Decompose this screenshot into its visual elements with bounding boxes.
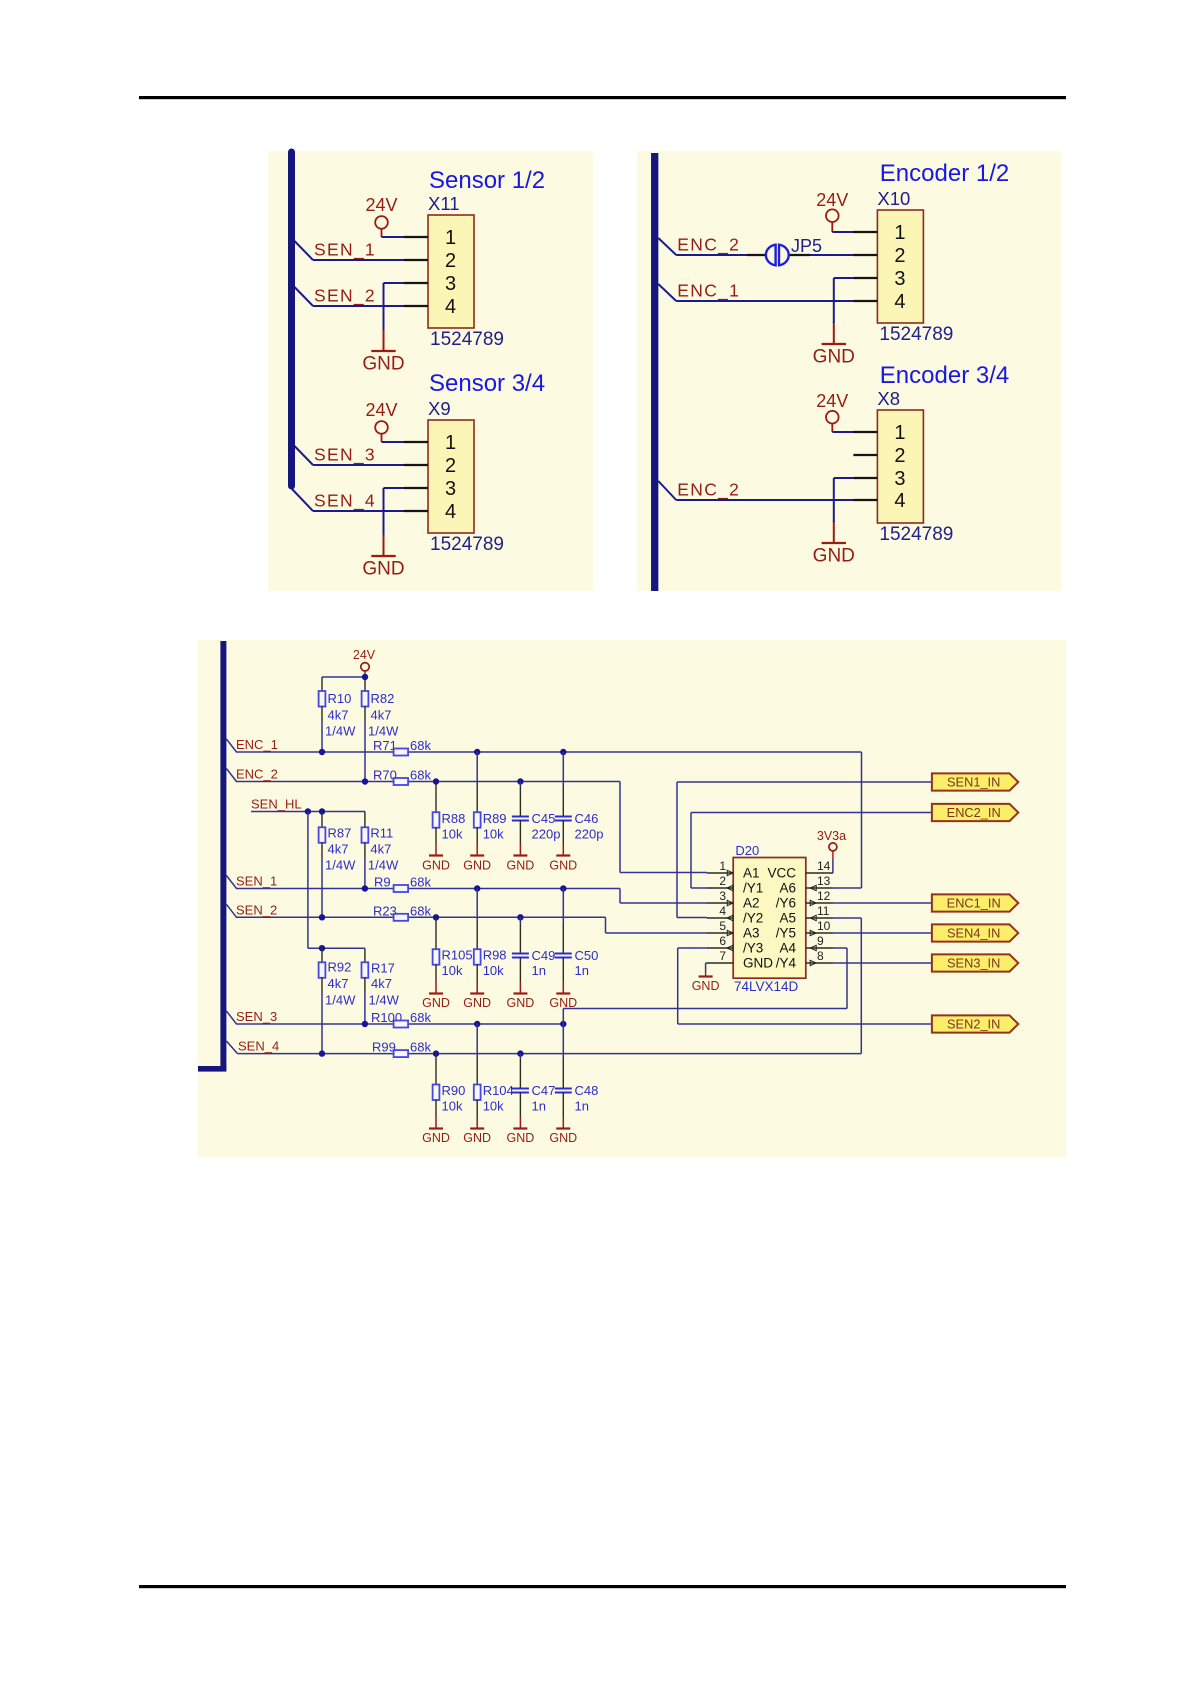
- svg-text:ENC1_IN: ENC1_IN: [947, 896, 1001, 911]
- svg-text:1/4W: 1/4W: [325, 993, 356, 1008]
- svg-text:1/4W: 1/4W: [368, 858, 399, 873]
- svg-text:ENC_2: ENC_2: [236, 767, 278, 782]
- svg-text:10k: 10k: [442, 827, 463, 842]
- svg-text:Encoder 3/4: Encoder 3/4: [880, 362, 1009, 389]
- svg-text:R105: R105: [442, 948, 473, 963]
- svg-text:SEN1_IN: SEN1_IN: [947, 775, 1000, 790]
- svg-text:GND: GND: [692, 979, 720, 993]
- svg-text:R104: R104: [483, 1083, 514, 1098]
- svg-text:1: 1: [894, 422, 905, 444]
- svg-text:SEN3_IN: SEN3_IN: [947, 956, 1000, 971]
- svg-text:R98: R98: [483, 948, 507, 963]
- svg-text:ENC_2: ENC_2: [677, 480, 740, 501]
- svg-text:24V: 24V: [353, 648, 376, 662]
- svg-text:SEN_4: SEN_4: [238, 1039, 279, 1054]
- svg-text:A5: A5: [779, 911, 796, 926]
- svg-text:220p: 220p: [575, 827, 604, 842]
- svg-text:3: 3: [719, 889, 726, 903]
- svg-text:4: 4: [445, 501, 456, 523]
- svg-text:/Y2: /Y2: [743, 911, 763, 926]
- svg-text:1: 1: [894, 222, 905, 244]
- svg-text:1524789: 1524789: [879, 524, 953, 545]
- svg-text:68k: 68k: [410, 875, 431, 890]
- svg-text:74LVX14D: 74LVX14D: [734, 979, 799, 994]
- svg-text:1524789: 1524789: [879, 324, 953, 345]
- svg-text:R89: R89: [483, 811, 507, 826]
- svg-text:R11: R11: [370, 826, 393, 841]
- svg-text:68k: 68k: [410, 1040, 431, 1055]
- svg-text:GND: GND: [463, 1131, 491, 1145]
- svg-text:D20: D20: [735, 843, 759, 858]
- svg-text:220p: 220p: [532, 827, 561, 842]
- svg-text:A6: A6: [779, 881, 796, 896]
- svg-text:Sensor 3/4: Sensor 3/4: [429, 370, 545, 397]
- svg-text:1n: 1n: [532, 963, 546, 978]
- svg-text:ENC_2: ENC_2: [677, 235, 740, 256]
- svg-text:R99: R99: [372, 1040, 396, 1055]
- svg-text:3: 3: [894, 268, 905, 290]
- svg-text:/Y6: /Y6: [776, 896, 796, 911]
- svg-text:GND: GND: [813, 347, 855, 368]
- svg-text:SEN_3: SEN_3: [236, 1009, 277, 1024]
- svg-text:A4: A4: [779, 941, 796, 956]
- svg-text:6: 6: [719, 934, 726, 948]
- svg-text:24V: 24V: [365, 400, 397, 420]
- svg-text:R87: R87: [328, 826, 352, 841]
- svg-text:ENC2_IN: ENC2_IN: [947, 805, 1001, 820]
- svg-text:4k7: 4k7: [328, 708, 349, 723]
- svg-text:4: 4: [894, 291, 905, 313]
- svg-text:1/4W: 1/4W: [325, 724, 356, 739]
- svg-text:ENC_1: ENC_1: [677, 281, 740, 302]
- svg-text:24V: 24V: [816, 391, 848, 411]
- svg-text:1524789: 1524789: [430, 534, 504, 555]
- svg-text:10: 10: [817, 919, 831, 933]
- svg-text:4k7: 4k7: [328, 976, 349, 991]
- svg-text:X8: X8: [877, 388, 900, 409]
- svg-text:1/4W: 1/4W: [368, 724, 399, 739]
- svg-text:GND: GND: [422, 1131, 450, 1145]
- svg-text:SEN_1: SEN_1: [314, 240, 376, 261]
- svg-text:13: 13: [817, 874, 831, 888]
- svg-text:GND: GND: [463, 996, 491, 1010]
- svg-text:14: 14: [817, 859, 831, 873]
- svg-text:12: 12: [817, 889, 831, 903]
- svg-text:68k: 68k: [410, 768, 431, 783]
- svg-text:2: 2: [445, 250, 456, 272]
- svg-text:/Y4: /Y4: [776, 956, 797, 971]
- svg-text:X10: X10: [877, 188, 910, 209]
- svg-text:GND: GND: [813, 546, 855, 567]
- svg-text:R17: R17: [371, 961, 395, 976]
- svg-text:9: 9: [817, 934, 824, 948]
- svg-text:10k: 10k: [483, 827, 504, 842]
- svg-text:GND: GND: [507, 859, 535, 873]
- svg-text:GND: GND: [743, 956, 773, 971]
- svg-text:4k7: 4k7: [370, 842, 391, 857]
- svg-text:/Y1: /Y1: [743, 881, 763, 896]
- svg-text:8: 8: [817, 949, 824, 963]
- svg-text:1n: 1n: [532, 1099, 546, 1114]
- svg-text:C48: C48: [575, 1083, 599, 1098]
- svg-text:1: 1: [719, 859, 726, 873]
- svg-text:68k: 68k: [410, 903, 431, 918]
- svg-text:1n: 1n: [575, 963, 589, 978]
- svg-text:SEN_HL: SEN_HL: [251, 797, 302, 812]
- svg-text:GND: GND: [507, 1131, 535, 1145]
- svg-text:GND: GND: [422, 996, 450, 1010]
- svg-text:A3: A3: [743, 926, 760, 941]
- svg-text:1/4W: 1/4W: [369, 993, 400, 1008]
- svg-text:GND: GND: [549, 1131, 577, 1145]
- svg-text:1/4W: 1/4W: [325, 858, 356, 873]
- svg-text:/Y3: /Y3: [743, 941, 763, 956]
- svg-text:5: 5: [719, 919, 726, 933]
- svg-text:3: 3: [445, 478, 456, 500]
- svg-text:24V: 24V: [816, 190, 848, 210]
- svg-text:C47: C47: [532, 1083, 556, 1098]
- svg-text:24V: 24V: [365, 195, 397, 215]
- svg-text:4k7: 4k7: [371, 976, 392, 991]
- svg-text:3V3a: 3V3a: [817, 829, 846, 843]
- svg-text:R90: R90: [442, 1083, 466, 1098]
- svg-text:ENC_1: ENC_1: [236, 737, 278, 752]
- svg-text:/Y5: /Y5: [776, 926, 796, 941]
- svg-text:4k7: 4k7: [371, 708, 392, 723]
- svg-text:68k: 68k: [410, 738, 431, 753]
- svg-text:X11: X11: [428, 193, 460, 214]
- svg-text:SEN_2: SEN_2: [314, 286, 376, 307]
- svg-text:GND: GND: [422, 859, 450, 873]
- svg-text:11: 11: [817, 904, 830, 918]
- svg-text:SEN_4: SEN_4: [314, 491, 376, 512]
- svg-text:GND: GND: [507, 996, 535, 1010]
- svg-text:JP5: JP5: [791, 236, 822, 256]
- svg-text:3: 3: [894, 468, 905, 490]
- svg-text:2: 2: [894, 245, 905, 267]
- svg-text:3: 3: [445, 273, 456, 295]
- svg-text:2: 2: [445, 455, 456, 477]
- svg-text:SEN2_IN: SEN2_IN: [947, 1017, 1000, 1032]
- svg-text:Sensor 1/2: Sensor 1/2: [429, 167, 545, 194]
- svg-text:C49: C49: [532, 948, 556, 963]
- svg-text:GND: GND: [362, 559, 404, 580]
- svg-text:68k: 68k: [410, 1010, 431, 1025]
- svg-text:10k: 10k: [442, 963, 463, 978]
- svg-text:10k: 10k: [483, 1099, 504, 1114]
- svg-text:GND: GND: [362, 354, 404, 375]
- svg-text:A2: A2: [743, 896, 760, 911]
- svg-text:10k: 10k: [442, 1099, 463, 1114]
- svg-text:R10: R10: [328, 691, 352, 706]
- svg-text:10k: 10k: [483, 963, 504, 978]
- svg-text:SEN_3: SEN_3: [314, 445, 376, 466]
- svg-text:1524789: 1524789: [430, 329, 504, 350]
- svg-text:4: 4: [445, 296, 456, 318]
- svg-text:R88: R88: [442, 811, 466, 826]
- svg-text:C50: C50: [575, 948, 599, 963]
- svg-text:R92: R92: [328, 960, 352, 975]
- svg-text:VCC: VCC: [767, 866, 796, 881]
- svg-text:4k7: 4k7: [328, 842, 349, 857]
- svg-text:GND: GND: [463, 859, 491, 873]
- svg-text:R82: R82: [371, 691, 395, 706]
- svg-text:4: 4: [894, 490, 905, 512]
- svg-text:SEN_2: SEN_2: [236, 902, 277, 917]
- svg-text:X9: X9: [428, 398, 451, 419]
- svg-text:1: 1: [445, 227, 456, 249]
- svg-text:C45: C45: [532, 811, 556, 826]
- svg-text:1: 1: [445, 432, 456, 454]
- svg-text:GND: GND: [549, 859, 577, 873]
- svg-text:1n: 1n: [575, 1099, 589, 1114]
- svg-text:SEN4_IN: SEN4_IN: [947, 926, 1000, 941]
- svg-text:7: 7: [719, 949, 726, 963]
- svg-text:2: 2: [894, 445, 905, 467]
- svg-text:R9: R9: [374, 875, 391, 890]
- svg-text:Encoder 1/2: Encoder 1/2: [880, 160, 1009, 187]
- svg-text:C46: C46: [575, 811, 599, 826]
- svg-text:SEN_1: SEN_1: [236, 874, 277, 889]
- svg-text:A1: A1: [743, 866, 760, 881]
- svg-text:4: 4: [719, 904, 726, 918]
- svg-text:2: 2: [719, 874, 726, 888]
